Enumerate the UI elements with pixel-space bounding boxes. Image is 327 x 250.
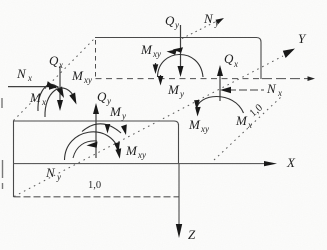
Q_y top arrow (down) — [180, 25, 182, 70]
N_x left: line and arrow — [8, 86, 52, 88]
N_y top dotted arrow — [182, 20, 219, 39]
M_x left arc — [38, 84, 60, 111]
Z axis — [178, 164, 180, 225]
M_xy left arc — [45, 88, 73, 117]
diagonal projection line left (dotted) — [14, 38, 96, 121]
wire: right edge / Z axis upper part — [178, 124, 180, 164]
Q_x right arrow (up) — [219, 72, 221, 101]
X axis — [14, 163, 267, 165]
bottom plate dashed bottom edge — [14, 196, 180, 198]
N_x right arrow (left) — [228, 89, 264, 91]
top plate outline — [95, 38, 261, 80]
N_x right arrow line extension — [262, 78, 309, 80]
Y arrowhead — [283, 49, 295, 59]
M_xy top arc — [158, 54, 204, 77]
M_y top arrows — [155, 63, 157, 67]
top plate hidden left edge (dashed) — [95, 40, 97, 78]
N_y bottom inner arc arrow — [73, 141, 97, 158]
diagonal dimension line right (dotted) — [214, 97, 281, 160]
bottom plate outline — [14, 121, 179, 197]
scan specks left margin — [1, 98, 4, 189]
Q_x left arrow (down) — [59, 66, 61, 102]
top plate mid dashed bottom edge — [96, 78, 263, 80]
Q_y bottom arrow (up) — [95, 110, 97, 158]
M_xy bottom arc — [65, 132, 120, 160]
M_x right arc — [197, 97, 244, 114]
M_y bottom arc — [82, 124, 121, 133]
Y axis dotted diagonal — [14, 56, 283, 197]
